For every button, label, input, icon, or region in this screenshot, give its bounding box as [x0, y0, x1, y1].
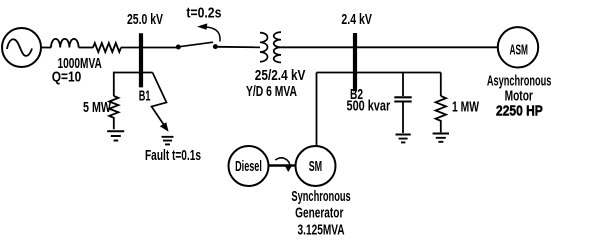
svg-text:ASM: ASM	[510, 42, 529, 59]
wire to SM generator	[316, 73, 318, 147]
transformer T1 secondary winding	[274, 32, 281, 62]
svg-text:500 kvar: 500 kvar	[347, 98, 391, 115]
wire source to inductor	[41, 47, 51, 49]
resistor 1 MW load	[436, 96, 446, 132]
bus B1	[139, 33, 143, 87]
breaker switch blade	[179, 42, 214, 47]
svg-text:t=0.2s: t=0.2s	[186, 5, 221, 22]
wire switch to transformer	[218, 46, 260, 49]
shaft coupling Diesel to SM	[269, 164, 296, 166]
wire branch B1 to 5MW load	[114, 73, 153, 97]
capacitor wire bottom	[402, 103, 404, 134]
svg-text:2.4 kV: 2.4 kV	[341, 11, 372, 28]
switch left contact dot	[176, 45, 181, 50]
ground below 1MW load	[433, 134, 449, 142]
wire resistor to switch	[121, 47, 176, 49]
transformer T1 primary winding	[260, 33, 268, 62]
svg-text:3.125MVA: 3.125MVA	[298, 222, 345, 239]
ASM motor circle	[498, 27, 538, 67]
bus B2	[353, 33, 357, 91]
svg-text:25.0 kV: 25.0 kV	[127, 11, 163, 28]
svg-text:1 MW: 1 MW	[452, 99, 480, 116]
capacitor 500 kvar plates	[394, 97, 411, 101]
coupling rotation arrow	[275, 158, 290, 167]
wire inductor to resistor	[79, 47, 93, 49]
fault arrow head	[160, 122, 169, 132]
ground below capacitor	[396, 135, 411, 143]
SM generator circle	[296, 146, 336, 186]
svg-text:Y/D 6 MVA: Y/D 6 MVA	[246, 83, 297, 100]
wire bus B2 lower branch	[317, 72, 441, 74]
svg-text:25/2.4 kV: 25/2.4 kV	[255, 67, 306, 84]
fault branch wire	[152, 73, 167, 127]
resistor 1 MW wire top	[440, 73, 442, 97]
resistor 5 MW load	[109, 96, 118, 129]
ground below fault	[162, 137, 174, 145]
switch right contact dot	[213, 44, 218, 49]
breaker arrow t=0.2s	[206, 27, 220, 42]
breaker arrow head	[197, 23, 207, 29]
inductor L1 source impedance	[51, 39, 79, 48]
svg-text:2250 HP: 2250 HP	[496, 103, 543, 120]
svg-text:Synchronous: Synchronous	[291, 188, 350, 205]
ground below 5MW load	[107, 131, 124, 140]
Diesel engine circle	[229, 146, 269, 186]
svg-text:SM: SM	[309, 158, 322, 175]
svg-text:Fault t=0.1s: Fault t=0.1s	[145, 147, 201, 164]
resistor R source impedance	[93, 43, 121, 52]
svg-text:Generator: Generator	[295, 205, 343, 222]
coupling arrow head	[284, 165, 292, 172]
wire transformer to ASM motor	[281, 46, 498, 48]
svg-text:Q=10: Q=10	[52, 69, 82, 86]
svg-text:Diesel: Diesel	[235, 158, 262, 175]
svg-text:B1: B1	[139, 88, 151, 105]
capacitor 500 kvar wire top	[402, 73, 404, 97]
AC source G1	[2, 28, 41, 67]
svg-text:5 MW: 5 MW	[83, 99, 112, 116]
